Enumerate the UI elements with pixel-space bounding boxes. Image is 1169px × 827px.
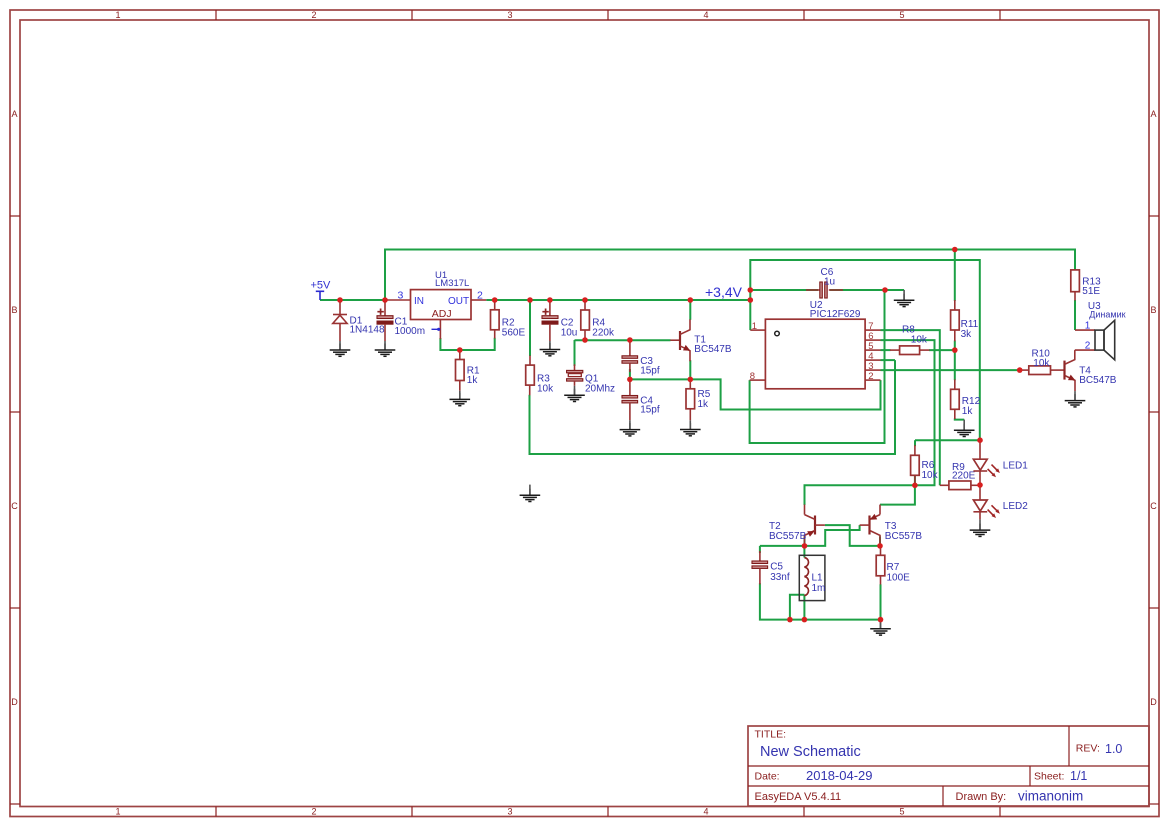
svg-text:8: 8 bbox=[750, 371, 755, 382]
svg-text:C5: C5 bbox=[770, 562, 783, 573]
svg-text:vimanonim: vimanonim bbox=[1018, 789, 1083, 804]
svg-text:D: D bbox=[11, 697, 18, 707]
svg-text:1000m: 1000m bbox=[395, 326, 426, 337]
svg-text:2018-04-29: 2018-04-29 bbox=[806, 768, 873, 783]
svg-text:1m: 1m bbox=[812, 583, 826, 594]
svg-text:OUT: OUT bbox=[448, 296, 469, 307]
svg-text:A: A bbox=[11, 109, 17, 119]
svg-text:PIC12F629: PIC12F629 bbox=[810, 309, 861, 320]
svg-text:L1: L1 bbox=[812, 573, 824, 584]
svg-text:10k: 10k bbox=[1033, 358, 1050, 369]
svg-text:10u: 10u bbox=[561, 328, 578, 339]
svg-text:D: D bbox=[1150, 697, 1157, 707]
svg-text:TITLE:: TITLE: bbox=[755, 729, 787, 741]
svg-text:5: 5 bbox=[899, 807, 904, 817]
svg-text:1k: 1k bbox=[467, 375, 479, 386]
svg-text:ADJ: ADJ bbox=[432, 308, 452, 320]
svg-text:1: 1 bbox=[115, 10, 120, 20]
svg-text:3: 3 bbox=[398, 289, 404, 301]
svg-text:B: B bbox=[11, 305, 17, 315]
svg-text:+3,4V: +3,4V bbox=[705, 284, 743, 300]
svg-text:BC547B: BC547B bbox=[1079, 375, 1117, 386]
svg-text:1: 1 bbox=[115, 807, 120, 817]
svg-text:LM317L: LM317L bbox=[435, 278, 469, 289]
svg-text:220k: 220k bbox=[592, 328, 615, 339]
svg-text:3k: 3k bbox=[961, 329, 973, 340]
svg-text:BC557B: BC557B bbox=[885, 531, 923, 542]
svg-text:REV:: REV: bbox=[1076, 743, 1100, 755]
svg-text:IN: IN bbox=[414, 296, 424, 307]
svg-text:2: 2 bbox=[868, 371, 873, 382]
svg-text:1: 1 bbox=[1085, 321, 1091, 332]
svg-text:LED2: LED2 bbox=[1003, 501, 1028, 512]
svg-text:2: 2 bbox=[311, 10, 316, 20]
svg-text:100E: 100E bbox=[887, 573, 911, 584]
svg-text:3: 3 bbox=[507, 10, 512, 20]
svg-text:C: C bbox=[1150, 501, 1157, 511]
svg-text:2: 2 bbox=[1085, 341, 1091, 352]
svg-text:C: C bbox=[11, 501, 18, 511]
svg-text:3: 3 bbox=[507, 807, 512, 817]
svg-text:Date:: Date: bbox=[755, 771, 780, 783]
svg-text:2: 2 bbox=[477, 289, 483, 301]
svg-text:4: 4 bbox=[703, 10, 708, 20]
svg-text:2: 2 bbox=[311, 807, 316, 817]
svg-text:B: B bbox=[1150, 305, 1156, 315]
svg-text:4: 4 bbox=[703, 807, 708, 817]
svg-text:BC547B: BC547B bbox=[694, 344, 732, 355]
svg-text:1N4148: 1N4148 bbox=[350, 325, 385, 336]
svg-text:33nf: 33nf bbox=[770, 572, 790, 583]
svg-text:10k: 10k bbox=[911, 334, 928, 345]
svg-text:1k: 1k bbox=[962, 406, 974, 417]
svg-text:Sheet:: Sheet: bbox=[1034, 771, 1064, 783]
svg-text:+5V: +5V bbox=[311, 280, 332, 292]
svg-text:EasyEDA V5.4.11: EasyEDA V5.4.11 bbox=[755, 791, 842, 803]
svg-text:1: 1 bbox=[752, 321, 757, 332]
svg-text:10k: 10k bbox=[537, 384, 554, 395]
svg-text:1.0: 1.0 bbox=[1105, 742, 1122, 756]
svg-text:Drawn By:: Drawn By: bbox=[956, 791, 1007, 803]
svg-text:220E: 220E bbox=[952, 471, 976, 482]
svg-text:New Schematic: New Schematic bbox=[760, 744, 861, 760]
svg-text:Динамик: Динамик bbox=[1089, 310, 1125, 320]
svg-text:1/1: 1/1 bbox=[1070, 769, 1087, 783]
svg-text:5: 5 bbox=[899, 10, 904, 20]
svg-text:A: A bbox=[1150, 109, 1156, 119]
svg-text:20Mhz: 20Mhz bbox=[585, 384, 615, 395]
svg-text:560E: 560E bbox=[502, 328, 526, 339]
svg-text:1k: 1k bbox=[698, 399, 710, 410]
svg-text:LED1: LED1 bbox=[1003, 460, 1028, 471]
svg-text:15pf: 15pf bbox=[640, 365, 660, 376]
svg-text:10k: 10k bbox=[922, 470, 939, 481]
svg-text:R7: R7 bbox=[887, 562, 900, 573]
svg-text:51E: 51E bbox=[1082, 286, 1100, 297]
svg-text:15pf: 15pf bbox=[640, 405, 660, 416]
svg-text:1u: 1u bbox=[824, 277, 835, 288]
svg-text:BC557B: BC557B bbox=[769, 531, 807, 542]
